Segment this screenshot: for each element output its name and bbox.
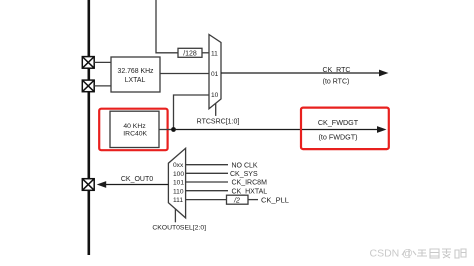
highlight box (red) around CK_FWDGT: [301, 108, 389, 150]
svg-text:110: 110: [173, 188, 184, 195]
svg-text:CK_IRC8M: CK_IRC8M: [232, 180, 268, 187]
svg-text:/128: /128: [183, 51, 197, 58]
svg-text:IRC40K: IRC40K: [123, 130, 147, 137]
wire: mux2 select line: [174, 209, 176, 222]
svg-text:40 KHz: 40 KHz: [123, 123, 146, 130]
wire: /2 to CK_PLL: [248, 199, 258, 201]
wire: OSC32IN to LXTAL: [94, 61, 111, 63]
wire: left vertical crystal rail: [88, 0, 91, 255]
svg-text:/2: /2: [233, 198, 240, 205]
wire CK_FWDGT with arrow: [302, 118, 387, 142]
wire: mux2 input 0xx: [186, 164, 228, 166]
watermark CJK glyph blocks: [402, 249, 466, 258]
svg-text:10: 10: [211, 92, 219, 99]
wire: mux2 input 100: [186, 172, 228, 174]
wire: mux select line: [215, 104, 217, 116]
svg-text:0xx: 0xx: [173, 162, 184, 169]
wire: LXTAL to mux input 01: [160, 73, 209, 75]
mux U1 RTCSRC: [209, 35, 221, 109]
svg-text:NO CLK: NO CLK: [232, 162, 258, 169]
wire: OSC32OUT to LXTAL: [94, 85, 111, 87]
oscillator block LXTAL: [111, 57, 160, 92]
pin CK_OUT0 (X-box): [82, 179, 94, 191]
wire: /128 to mux input 11: [202, 52, 209, 54]
divider /128: [178, 48, 202, 57]
pin OSC32OUT (X-box): [82, 80, 94, 92]
svg-text:(to FWDGT): (to FWDGT): [318, 133, 357, 142]
wire: mux2 input 110: [186, 190, 228, 192]
wire CK_OUT0 with arrow to pin: [97, 176, 169, 188]
svg-text:RTCSRC[1:0]: RTCSRC[1:0]: [197, 119, 240, 126]
svg-text:LXTAL: LXTAL: [125, 77, 146, 84]
wire: mux2 input 111 to /2: [186, 199, 227, 201]
svg-text:CKOUT0SEL[2:0]: CKOUT0SEL[2:0]: [152, 225, 206, 232]
wire: IRC40K output: [159, 129, 174, 131]
svg-text:32.768 KHz: 32.768 KHz: [117, 68, 154, 75]
highlight box (red) around IRC40K: [99, 109, 167, 151]
oscillator block IRC40K: [110, 111, 159, 147]
svg-text:CK_FWDGT: CK_FWDGT: [318, 118, 359, 127]
svg-text:CK_RTC: CK_RTC: [323, 67, 351, 74]
junction node: [171, 127, 176, 132]
svg-text:111: 111: [173, 197, 183, 204]
svg-text:CSDN @: CSDN @: [370, 248, 413, 260]
mux U2 CKOUT0SEL: [168, 148, 185, 218]
svg-text:CK_PLL: CK_PLL: [261, 195, 289, 204]
svg-text:11: 11: [211, 51, 218, 58]
svg-text:101: 101: [173, 180, 184, 187]
wire: junction to FWDGT box: [174, 129, 303, 131]
wire: from top edge down to /128 divider: [156, 0, 178, 53]
pin OSC32IN (X-box): [82, 57, 94, 69]
svg-text:01: 01: [211, 71, 219, 78]
svg-text:(to RTC): (to RTC): [323, 78, 350, 85]
wire: branch up to mux input 10: [174, 95, 210, 130]
svg-text:CK_SYS: CK_SYS: [230, 171, 258, 178]
wire CK_RTC with arrow: [221, 67, 389, 85]
wire: mux2 input 101: [186, 181, 228, 183]
svg-text:CK_OUT0: CK_OUT0: [121, 176, 153, 183]
divider /2: [227, 195, 249, 204]
svg-text:100: 100: [173, 171, 184, 178]
